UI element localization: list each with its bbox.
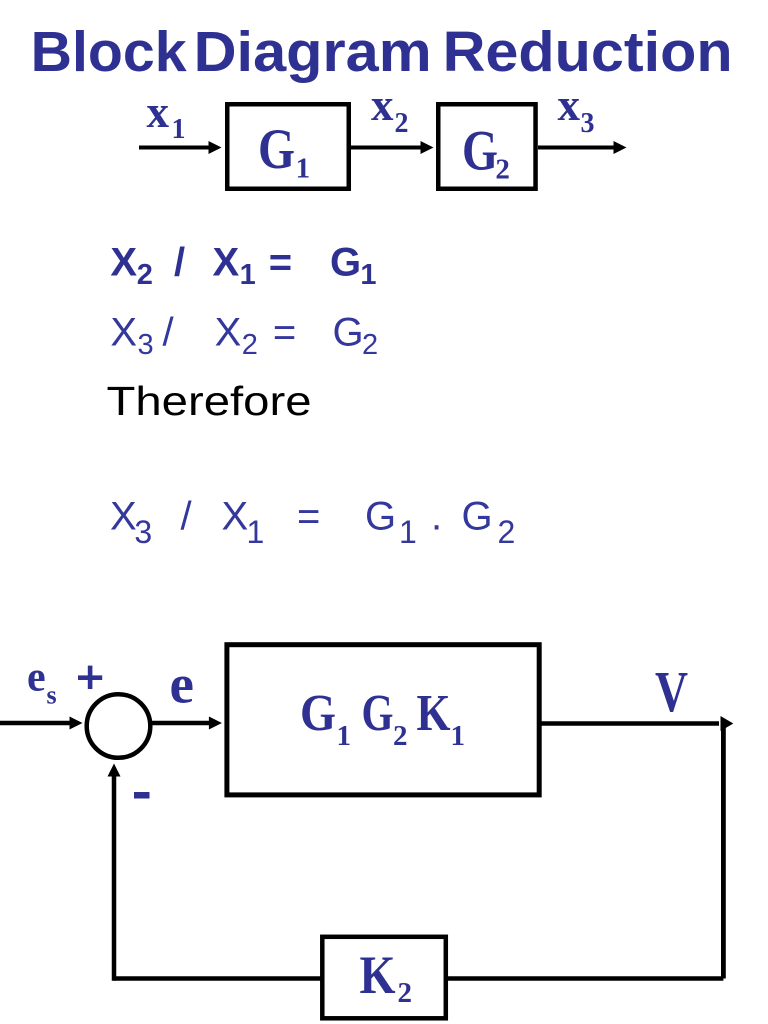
wire: input arrow into G1 <box>139 141 222 154</box>
svg-text:Reduction: Reduction <box>443 20 733 84</box>
plus sign at summing junction <box>78 666 102 689</box>
svg-text:.: . <box>431 495 442 539</box>
svg-text:K: K <box>417 685 451 742</box>
svg-text:=: = <box>269 240 292 284</box>
svg-text:1: 1 <box>451 720 466 752</box>
wire: input arrow into summing junction <box>0 717 83 730</box>
svg-text:/: / <box>163 310 175 354</box>
svg-text:e: e <box>170 654 194 715</box>
equation 3: X3 / X1 = G1 . G2 <box>110 495 515 550</box>
svg-text:/: / <box>174 240 185 284</box>
wire: arrow G1 to G2 <box>351 141 434 154</box>
svg-text:2: 2 <box>495 154 510 186</box>
wire: bottom feedback line left segment <box>114 976 322 981</box>
wire: left vertical feedback with arrow up into summing junction <box>108 764 121 981</box>
svg-text:Diagram: Diagram <box>194 20 432 84</box>
node x3 label <box>558 80 595 139</box>
svg-text:2: 2 <box>393 720 408 752</box>
node es label <box>27 655 57 710</box>
node x2 label <box>371 80 409 139</box>
summing junction circle <box>87 694 151 758</box>
block G2 <box>438 104 535 189</box>
svg-text:V: V <box>655 659 688 724</box>
equation 1: X2 / X1 = G1 (bold) <box>110 240 376 291</box>
wire: arrow summing junction to block <box>151 717 222 730</box>
svg-text:/: / <box>181 495 193 539</box>
node x1 label <box>147 87 186 145</box>
svg-text:G: G <box>300 685 336 742</box>
equation 2: X3 / X2 = G2 <box>110 310 378 361</box>
svg-text:=: = <box>273 310 296 354</box>
svg-text:Block: Block <box>31 20 187 84</box>
svg-text:K: K <box>360 945 396 1005</box>
minus sign <box>134 792 150 799</box>
title: Block Diagram Reduction <box>31 20 733 84</box>
wire: bottom feedback line right segment <box>446 976 723 981</box>
svg-text:Therefore: Therefore <box>107 378 312 424</box>
svg-text:2: 2 <box>398 977 413 1009</box>
wire: right vertical feedback line <box>721 722 726 979</box>
svg-text:G: G <box>258 118 295 181</box>
wire: output line from block with arrowhead at corner <box>540 716 733 731</box>
svg-text:1: 1 <box>296 153 311 185</box>
block G1 G2 K1 <box>227 645 539 795</box>
block K2 <box>322 937 446 1019</box>
svg-text:G: G <box>362 685 394 742</box>
block G1 <box>227 104 349 189</box>
wire: output arrow from G2 <box>538 141 627 154</box>
svg-text:G: G <box>462 120 498 183</box>
svg-text:=: = <box>297 495 320 539</box>
svg-text:1: 1 <box>337 720 352 752</box>
